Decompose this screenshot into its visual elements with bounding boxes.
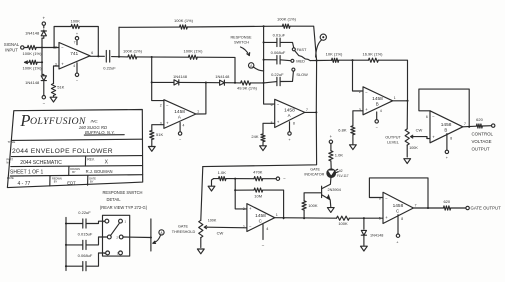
resistor R18 470K <box>253 170 263 181</box>
op-amp U2 1458A <box>160 100 199 129</box>
wire R13 feedback to U4 out <box>378 60 407 101</box>
wire R6 to corner <box>197 57 235 83</box>
LED D6 gate indicator <box>304 168 348 179</box>
svg-text:1N4148: 1N4148 <box>25 31 40 36</box>
svg-text:1.0K: 1.0K <box>335 153 344 158</box>
logo Polyfusion <box>19 111 124 135</box>
wire U7 feedback box <box>369 178 428 208</box>
svg-text:620: 620 <box>443 199 450 204</box>
svg-text:OUTPUT: OUTPUT <box>385 135 401 139</box>
svg-text:1N4148: 1N4148 <box>25 80 40 85</box>
svg-text:4: 4 <box>266 227 268 231</box>
ground stub 1K <box>208 179 215 191</box>
resistor R13 16.9K (1%) <box>362 52 383 63</box>
label response switch <box>230 35 252 44</box>
wire U5 feedback box <box>419 89 469 127</box>
wire U3 output <box>305 111 318 113</box>
wire C1 to R5 <box>112 56 128 58</box>
wire U4 output <box>393 100 409 102</box>
wire cap bank bus <box>263 26 275 104</box>
svg-text:51K: 51K <box>156 132 163 137</box>
svg-text:(REAR VIEW TYP 272-G): (REAR VIEW TYP 272-G) <box>100 205 148 210</box>
power pin8 U5 <box>445 134 452 161</box>
switch contact MED <box>291 58 305 63</box>
svg-text:INC.: INC. <box>91 118 99 123</box>
svg-text:10M: 10M <box>254 194 262 199</box>
svg-text:SLOW: SLOW <box>296 72 308 77</box>
node A circle <box>249 63 264 71</box>
svg-text:100K: 100K <box>338 221 348 226</box>
svg-text:−: − <box>283 176 286 181</box>
diode D4 1N4148 <box>206 74 235 85</box>
ground below pot <box>404 159 411 164</box>
svg-text:1: 1 <box>276 213 278 217</box>
svg-text:0.22uF: 0.22uF <box>78 210 91 215</box>
diode D3 1N4148 <box>173 74 206 85</box>
node gate output <box>451 206 501 211</box>
svg-text:3: 3 <box>359 108 361 112</box>
ground below R9 <box>148 140 155 152</box>
power +15 top-left <box>42 15 45 25</box>
wire pot wiper to U5 <box>414 137 430 139</box>
label response switch detail <box>100 190 148 210</box>
wire rail1 riser <box>118 27 120 56</box>
power +15 LED <box>329 134 332 151</box>
svg-text:B: B <box>444 128 447 133</box>
wire U5 output <box>463 126 477 128</box>
svg-text:7: 7 <box>74 41 76 45</box>
svg-text:NO: NO <box>6 160 10 164</box>
svg-text:BY: BY <box>54 180 58 184</box>
svg-text:2: 2 <box>243 225 245 229</box>
switch contact SLOW <box>292 68 308 77</box>
resistor R5 100K (1%) <box>123 48 143 59</box>
resistor R7 100K (1%) rail1 <box>174 18 194 29</box>
svg-text:0.22uF: 0.22uF <box>271 72 284 77</box>
resistor R1 100K (1%) <box>23 45 43 56</box>
wire U2 pin3 <box>152 125 164 131</box>
svg-text:RESPONSE: RESPONSE <box>230 35 252 39</box>
svg-text:SWITCH: SWITCH <box>234 41 249 45</box>
ground below R11 <box>260 142 267 151</box>
svg-text:1N4148: 1N4148 <box>370 233 383 237</box>
svg-text:6: 6 <box>91 51 93 55</box>
svg-text:CONTROL: CONTROL <box>472 131 494 136</box>
resistor R22 620 <box>476 117 483 128</box>
op-amp U6 1458C <box>243 204 278 232</box>
svg-text:OUTPUT: OUTPUT <box>472 146 490 151</box>
svg-text:8: 8 <box>401 217 403 221</box>
node control voltage output <box>472 124 495 151</box>
op-amp U1 741 <box>55 41 93 69</box>
svg-text:INDICATOR: INDICATOR <box>304 172 324 176</box>
wire U2 output <box>196 113 206 115</box>
svg-text:SIGNAL: SIGNAL <box>4 42 20 47</box>
sheet row <box>10 166 113 175</box>
ground below threshold pot <box>197 249 204 254</box>
svg-text:51K: 51K <box>57 84 64 89</box>
svg-text:+: + <box>42 15 45 20</box>
op-amp U3 1458A <box>271 99 308 127</box>
svg-text:4: 4 <box>73 64 75 68</box>
detail row3 wire <box>65 253 105 267</box>
svg-text:BUFFALO, N.Y.: BUFFALO, N.Y. <box>85 130 115 135</box>
wire wiper to U6 pin2 <box>208 226 247 229</box>
wire U2 out riser <box>205 82 207 114</box>
svg-text:B: B <box>376 102 379 107</box>
svg-text:7: 7 <box>306 108 308 112</box>
svg-text:24K: 24K <box>251 134 258 139</box>
svg-text:#2: #2 <box>339 169 343 173</box>
svg-text:7: 7 <box>464 122 466 126</box>
wire U4 pin3 <box>353 111 363 126</box>
label gate threshold <box>172 224 196 234</box>
svg-text:8: 8 <box>450 137 452 141</box>
svg-text:P: P <box>19 111 30 130</box>
detail contact A1 <box>103 219 127 223</box>
wire diode row left <box>152 81 174 83</box>
power pin7 U1 <box>75 32 79 45</box>
op-amp U4 1458B <box>359 87 396 115</box>
wire R17 to junction <box>226 178 254 180</box>
resistor R9 51K <box>150 131 164 140</box>
svg-text:A: A <box>288 113 291 118</box>
resistor R15 1.0K <box>329 151 344 169</box>
capacitor C7 0.068uF detail <box>78 253 93 271</box>
svg-text:GATE: GATE <box>178 224 189 228</box>
wire R20 to U7 <box>349 217 383 219</box>
arrow to node A <box>241 47 250 56</box>
part row <box>6 156 108 166</box>
resistor R19 10M <box>235 188 263 199</box>
svg-text:470K: 470K <box>253 170 263 175</box>
wire 10M to output <box>263 190 284 219</box>
detail node A circle <box>153 230 164 244</box>
resistor R12 10K (1%) <box>317 52 343 63</box>
svg-text:100K: 100K <box>71 19 81 24</box>
svg-text:741: 741 <box>70 51 78 57</box>
svg-text:4: 4 <box>183 124 185 128</box>
svg-text:100K (1%): 100K (1%) <box>23 66 43 71</box>
diode D2 1N4148 <box>25 75 46 96</box>
svg-text:5: 5 <box>426 135 428 139</box>
svg-text:A: A <box>178 115 181 120</box>
ground below Q1 emitter <box>327 208 334 213</box>
svg-text:1N4148: 1N4148 <box>215 74 230 79</box>
date row <box>7 175 96 187</box>
node -15 via 470K <box>263 176 286 181</box>
node dot marker <box>316 34 327 57</box>
svg-text:1: 1 <box>197 109 199 113</box>
svg-text:BY: BY <box>90 180 94 184</box>
wire rail1 to output node <box>290 26 317 60</box>
svg-text:0.01uF: 0.01uF <box>273 33 286 38</box>
ground below R14 <box>350 135 357 150</box>
svg-text:2044 SCHEMATIC: 2044 SCHEMATIC <box>20 160 62 166</box>
svg-text:C: C <box>396 209 399 214</box>
resistor R20 100K <box>337 216 350 226</box>
ground below R4 <box>50 96 57 103</box>
svg-text:100K (1%): 100K (1%) <box>123 48 143 53</box>
svg-text:GATE OUTPUT: GATE OUTPUT <box>471 206 502 211</box>
svg-text:3: 3 <box>243 207 245 211</box>
title block frame <box>7 110 142 188</box>
detail common wire <box>123 236 152 238</box>
wire envelope to comparator <box>203 112 317 166</box>
svg-text:−: − <box>43 101 46 106</box>
svg-text:2N3904: 2N3904 <box>328 188 341 192</box>
svg-text:SHEET 1 OF 1: SHEET 1 OF 1 <box>10 169 43 175</box>
svg-text:0.22uF: 0.22uF <box>103 65 116 70</box>
resistor R16 100K base <box>302 193 322 218</box>
wire R10 to bus <box>251 82 264 84</box>
capacitor C3 0.068uF <box>264 50 291 64</box>
transistor Q1 2N3904 <box>322 178 341 207</box>
wire R5 to R6 <box>137 56 189 58</box>
resistor R2 100K (1%) <box>23 60 43 70</box>
svg-text:LEVEL: LEVEL <box>387 141 399 145</box>
capacitor C1 0.22uF <box>103 51 116 71</box>
wire input node to pin2 <box>41 46 59 48</box>
potentiometer GATE THRESHOLD 100K <box>199 167 224 248</box>
svg-text:7: 7 <box>415 203 417 207</box>
power pin4 U6 <box>262 225 269 248</box>
svg-text:4 - 77: 4 - 77 <box>18 181 31 187</box>
wire R12 to R13 <box>339 59 369 61</box>
svg-text:8: 8 <box>293 121 295 125</box>
svg-text:GATE: GATE <box>310 168 320 172</box>
wire MED to node <box>310 60 316 62</box>
resistor R6 100K (1%) <box>184 49 204 60</box>
svg-text:−: − <box>262 243 265 248</box>
svg-text:OLYFUSION: OLYFUSION <box>30 116 86 127</box>
svg-text:100K (1%): 100K (1%) <box>184 49 204 54</box>
op-amp U7 1458C <box>379 192 417 223</box>
svg-text:0.068uF: 0.068uF <box>78 253 93 258</box>
svg-text:CW: CW <box>416 128 423 133</box>
capacitor C6 0.015uF detail <box>78 232 93 250</box>
detail row2 wire <box>65 237 107 246</box>
resistor R10 49.9K (1%) <box>237 81 258 91</box>
wire clamp node vertical <box>41 38 43 74</box>
svg-text:6: 6 <box>426 115 428 119</box>
resistor R21 620 <box>443 199 451 210</box>
svg-text:2: 2 <box>160 103 162 107</box>
detail contact 2 <box>107 235 123 239</box>
svg-text:R.J. BOUMAN: R.J. BOUMAN <box>86 169 113 174</box>
capacitor C5 0.22uF detail <box>78 210 91 228</box>
wire rail1 left <box>119 26 180 28</box>
switch wiper arm <box>295 51 310 61</box>
potentiometer R OUTPUT LEVEL 100K <box>405 101 422 157</box>
svg-text:100K (1%): 100K (1%) <box>23 51 43 56</box>
power pin4 U2 <box>178 123 184 142</box>
svg-text:4: 4 <box>380 109 382 113</box>
svg-text:FAST: FAST <box>297 47 307 52</box>
svg-text:VOLTAGE: VOLTAGE <box>472 139 492 144</box>
svg-text:C: C <box>259 218 262 223</box>
svg-text:100K (1%): 100K (1%) <box>277 17 297 22</box>
resistor R8 100K (1%) rail1b <box>277 17 297 29</box>
diode D5 1N4148 <box>361 218 383 245</box>
svg-text:0.015uF: 0.015uF <box>78 232 93 237</box>
diode D1 1N4148 <box>25 25 46 38</box>
wire junction drop x152 <box>151 57 164 101</box>
svg-text:3: 3 <box>55 63 57 67</box>
svg-text:CW: CW <box>217 230 224 235</box>
wire U7 output <box>413 207 443 209</box>
resistor R14 6.8K <box>338 126 355 135</box>
detail wiper arm <box>111 223 120 235</box>
power pin4 U1 <box>75 63 79 83</box>
svg-text:DATE: DATE <box>7 176 14 180</box>
wire diode row to R10 <box>234 82 241 84</box>
svg-text:100K: 100K <box>308 203 318 208</box>
svg-text:2: 2 <box>55 46 57 50</box>
wire rail1 right <box>187 25 282 27</box>
svg-text:16.9K (1%): 16.9K (1%) <box>362 52 383 57</box>
svg-text:FLV-117: FLV-117 <box>337 174 349 178</box>
op-amp U5 1458B <box>426 111 466 143</box>
wire U3 pin5 <box>263 123 275 134</box>
svg-text:0.068uF: 0.068uF <box>271 50 286 55</box>
svg-text:TITLE: TITLE <box>8 140 16 144</box>
resistor R17 1.0K <box>214 170 227 181</box>
power -15 below D2 <box>42 96 45 106</box>
svg-text:MED: MED <box>296 58 305 63</box>
svg-text:2044 ENVELOPE FOLLOWER: 2044 ENVELOPE FOLLOWER <box>12 148 113 155</box>
wire U1 feedback left <box>53 27 71 49</box>
svg-text:10K (1%): 10K (1%) <box>326 52 343 57</box>
node signal input terminal <box>4 42 24 52</box>
svg-text:100K: 100K <box>208 219 217 223</box>
wire U1 feedback right <box>80 27 99 57</box>
svg-text:BY: BY <box>72 170 76 174</box>
detail contact 43 <box>104 251 122 255</box>
switch detail box <box>103 215 130 256</box>
wire U1 output <box>90 55 104 57</box>
svg-text:EDT: EDT <box>67 180 76 185</box>
power pin8 U7 <box>396 215 403 245</box>
svg-text:1: 1 <box>394 96 396 100</box>
wire 741 pin3 row <box>54 66 60 84</box>
svg-text:49.9K (1%): 49.9K (1%) <box>237 86 258 91</box>
detail row1 wire <box>65 221 105 224</box>
title text <box>8 140 113 155</box>
svg-text:100K: 100K <box>409 146 418 150</box>
svg-text:100K (1%): 100K (1%) <box>174 18 194 23</box>
svg-text:A: A <box>103 220 105 224</box>
detail bus wire <box>65 218 67 271</box>
power pin8 U3 <box>288 121 295 141</box>
svg-text:6.8K: 6.8K <box>338 127 347 132</box>
svg-text:1N4148: 1N4148 <box>173 74 188 79</box>
svg-text:THRESHOLD: THRESHOLD <box>172 230 196 234</box>
switch contact FAST <box>292 47 307 52</box>
svg-text:6: 6 <box>379 196 381 200</box>
svg-text:RESPONSE SWITCH: RESPONSE SWITCH <box>102 190 142 195</box>
svg-text:DETAIL: DETAIL <box>106 197 121 202</box>
svg-text:5: 5 <box>379 216 381 220</box>
label output level <box>385 135 401 144</box>
svg-text:INPUT: INPUT <box>5 48 18 53</box>
capacitor C2 0.01uF <box>264 33 294 48</box>
capacitor C4 0.22uF <box>264 71 294 85</box>
svg-text:620: 620 <box>476 117 483 122</box>
svg-text:6: 6 <box>271 103 273 107</box>
resistor R11 24K <box>251 134 265 142</box>
detail panel bar <box>150 219 152 251</box>
svg-text:1.0K: 1.0K <box>218 170 227 175</box>
wire U6 output row <box>275 217 337 219</box>
power pin4 U4 <box>375 109 382 129</box>
resistor R3 100K <box>71 19 81 29</box>
svg-text:2: 2 <box>359 90 361 94</box>
wire main vertical node <box>316 59 318 112</box>
wire junction down <box>234 179 247 209</box>
svg-text:REV.: REV. <box>87 158 95 162</box>
ground below D5 <box>361 246 368 251</box>
resistor R4 51K <box>51 84 64 96</box>
wire node to U4 pin2 <box>353 60 364 91</box>
